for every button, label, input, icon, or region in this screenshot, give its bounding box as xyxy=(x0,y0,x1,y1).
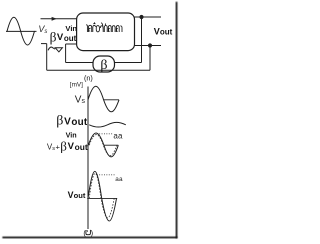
svg-text:out: out xyxy=(71,117,87,128)
waveform Vin baseline xyxy=(104,144,118,146)
svg-text:β: β xyxy=(50,29,57,44)
svg-text:aa: aa xyxy=(113,132,123,141)
wire output bottom xyxy=(135,45,162,47)
wire amp input horizontal xyxy=(66,43,77,45)
junction dot bottom xyxy=(148,43,152,47)
Vout dotted annotation line xyxy=(97,174,115,176)
wire input top xyxy=(41,18,77,20)
amplifier box xyxy=(77,13,135,51)
Vin dotted annotation line xyxy=(97,133,113,135)
waveform Vout baseline xyxy=(87,197,117,199)
wire stub left of source xyxy=(41,43,47,45)
source axis line xyxy=(6,30,37,32)
svg-text:out: out xyxy=(64,34,77,43)
svg-text:Vin: Vin xyxy=(65,24,77,33)
svg-text:β: β xyxy=(56,114,63,129)
frame shadow bottom bar xyxy=(2,237,177,239)
beta block U2 xyxy=(93,56,115,72)
svg-text:V: V xyxy=(68,141,75,152)
svg-text:aa: aa xyxy=(115,176,123,183)
wire beta output left xyxy=(66,62,93,64)
wire feedback right horizontal xyxy=(115,62,142,64)
svg-text:β: β xyxy=(60,138,67,153)
waveform Vs baseline xyxy=(104,99,119,101)
feedback source symbol tilde xyxy=(48,47,55,50)
wire right vertical to bottom dot xyxy=(149,46,151,71)
junction dot top xyxy=(139,15,143,19)
svg-text:β: β xyxy=(100,58,107,73)
amplifier thai text xyxy=(86,22,122,32)
waveform Vin dashed inner xyxy=(89,135,117,156)
svg-text:Vout: Vout xyxy=(154,26,173,36)
wire bottom rail xyxy=(47,69,150,71)
wire feedback vertical from top dot xyxy=(141,17,143,63)
svg-text:Vin: Vin xyxy=(66,131,77,140)
waveform axis xyxy=(87,87,89,230)
feedback source symbol triangle xyxy=(55,48,62,52)
frame shadow right bar xyxy=(176,2,178,238)
svg-text:(n): (n) xyxy=(84,74,93,83)
waveform Vs xyxy=(88,86,119,112)
waveform Vout xyxy=(88,171,117,221)
wire vertical to amp input xyxy=(65,44,67,63)
svg-text:out: out xyxy=(75,142,88,152)
svg-text:Vout: Vout xyxy=(68,190,86,200)
svg-text:V: V xyxy=(64,117,71,128)
source Vs sine symbol xyxy=(7,17,34,45)
svg-text:[mV]: [mV] xyxy=(70,82,83,89)
arrowhead on input wire xyxy=(52,17,57,21)
wire left vertical xyxy=(46,44,48,71)
waveform Vin xyxy=(88,133,118,157)
svg-text:V: V xyxy=(57,32,64,43)
svg-text:): ) xyxy=(91,228,93,237)
waveform Vout dashed inner xyxy=(89,173,114,218)
waveform beta-Vout xyxy=(89,122,126,127)
wire output top xyxy=(135,16,162,18)
page background xyxy=(0,0,180,244)
